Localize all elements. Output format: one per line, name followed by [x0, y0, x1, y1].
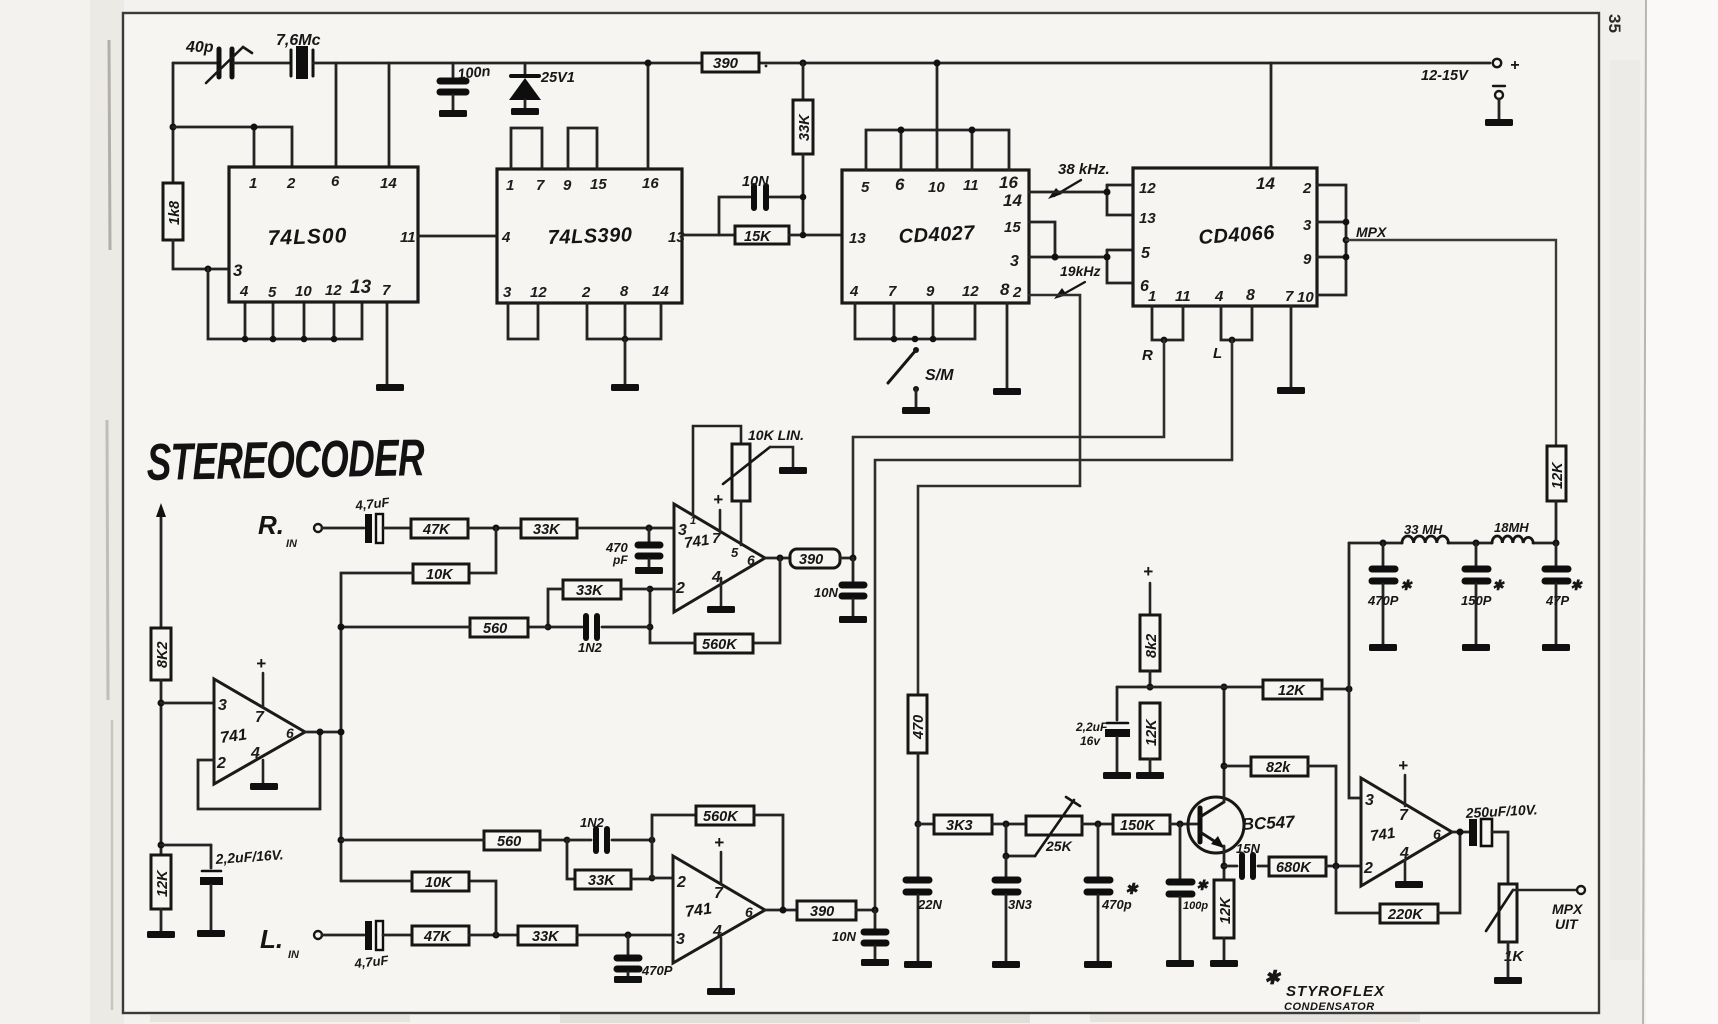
- svg-text:✱: ✱: [1400, 577, 1413, 593]
- ground 1K pot: [1494, 977, 1522, 984]
- svg-text:47P: 47P: [1545, 593, 1569, 608]
- resistor 1k8: [163, 183, 183, 240]
- wire left osc branch vertical: [172, 63, 175, 183]
- svg-text:12: 12: [962, 283, 979, 300]
- svg-text:IN: IN: [288, 949, 300, 961]
- resistor 220K (feedback): [1336, 832, 1460, 923]
- resistor 390 (L output): [797, 901, 856, 920]
- wire bus below 74LS00: [208, 269, 362, 339]
- svg-text:12K: 12K: [155, 869, 171, 897]
- capacitor 470P (L input filter): [617, 935, 673, 978]
- svg-text:7: 7: [888, 283, 897, 300]
- wire pin4 ground (output op-amp): [1404, 860, 1407, 881]
- svg-text:1N2: 1N2: [578, 640, 603, 655]
- wire 390 to L node: [856, 909, 875, 912]
- svg-text:8K2: 8K2: [155, 641, 171, 668]
- capacitor 47P (filter): [1545, 543, 1583, 644]
- ground S/M: [902, 407, 930, 414]
- svg-text:4: 4: [711, 569, 721, 586]
- switch S/M: [888, 336, 954, 407]
- resistor 390 (R output): [790, 549, 840, 568]
- svg-text:3: 3: [218, 697, 227, 714]
- IC U2 74LS390: [497, 169, 685, 303]
- svg-text:33 MH: 33 MH: [1404, 522, 1443, 537]
- svg-text:+: +: [256, 654, 266, 673]
- svg-text:pF: pF: [612, 553, 628, 567]
- wire op-amp pin2 from 33K feedback: [650, 588, 674, 591]
- wire CD4027 pin14 (38kHz) to CD4066 pins 12,13: [1029, 191, 1107, 194]
- svg-text:33K: 33K: [532, 929, 560, 945]
- ground CD4027 pin8: [993, 388, 1021, 395]
- wire output node: [1452, 831, 1469, 834]
- ground U5 pin4: [707, 606, 735, 613]
- resistor 12K (MPX input): [1547, 446, 1566, 543]
- svg-text:1: 1: [690, 515, 696, 527]
- capacitor 2,2uF/16V (bias): [1075, 687, 1130, 772]
- svg-text:MPX: MPX: [1356, 224, 1388, 240]
- wire 15K to CD4027 pin13: [789, 234, 842, 237]
- svg-text:35: 35: [1605, 14, 1624, 33]
- resistor 47K (R): [411, 519, 468, 538]
- svg-text:3: 3: [1010, 253, 1019, 270]
- svg-text:+: +: [1510, 57, 1519, 74]
- wire 1k8 to pin 3: [173, 240, 229, 269]
- svg-text:33K: 33K: [588, 873, 616, 889]
- potentiometer 1K: [1486, 884, 1576, 977]
- svg-text:7: 7: [1285, 288, 1294, 305]
- - supply terminal with ground: [1485, 86, 1513, 126]
- capacitor 470P (filter): [1367, 543, 1413, 644]
- wire CD4027 bottom bus pins 4,7,9,12: [855, 303, 975, 339]
- svg-text:11: 11: [963, 177, 979, 194]
- label 19kHz with arrow: [1054, 263, 1100, 299]
- svg-text:470P: 470P: [641, 963, 673, 978]
- ground 3N3: [992, 961, 1020, 968]
- svg-text:S/M: S/M: [925, 367, 954, 384]
- ground 74LS390 pin8: [611, 384, 639, 391]
- svg-text:390: 390: [713, 55, 739, 72]
- svg-text:12: 12: [1139, 180, 1156, 197]
- capacitor 10N (parallel with 15K): [719, 174, 803, 235]
- svg-text:2: 2: [216, 755, 226, 772]
- svg-text:6: 6: [895, 175, 905, 194]
- svg-text:5: 5: [731, 545, 739, 560]
- svg-text:14: 14: [1003, 191, 1022, 210]
- ground 12K: [147, 931, 175, 938]
- resistor 12K (emitter): [1214, 880, 1234, 960]
- capacitor 22N: [906, 824, 942, 961]
- svg-text:16v: 16v: [1080, 734, 1101, 748]
- capacitor 100n (decoupling): [439, 63, 491, 117]
- svg-text:7: 7: [382, 282, 391, 299]
- ground U8 pin4: [1395, 881, 1423, 888]
- svg-text:4: 4: [501, 229, 511, 246]
- wire CD4066 pins 4,8 link (L): [1221, 306, 1252, 340]
- svg-text:L: L: [1213, 345, 1222, 362]
- wire 74LS390 pins 1-7 link: [511, 128, 542, 169]
- wire CD4027 pin3 (19kHz) to CD4066 pins 5,6: [1029, 256, 1107, 259]
- wire filter line: [1349, 542, 1402, 545]
- svg-text:+: +: [1143, 562, 1153, 581]
- svg-text:560: 560: [497, 834, 521, 850]
- svg-text:L.: L.: [260, 924, 283, 954]
- wire offset pin1 loop to 10K LIN top: [693, 426, 741, 515]
- wire pin8 ground stub: [624, 339, 627, 384]
- svg-text:12K: 12K: [1278, 683, 1306, 699]
- svg-text:11: 11: [400, 229, 416, 246]
- resistor 33K (L feedback): [567, 840, 651, 889]
- op-amp U5 741 (R channel): [674, 504, 765, 612]
- svg-text:10: 10: [295, 283, 312, 300]
- svg-text:10N: 10N: [742, 174, 769, 190]
- ground 2,2uF bias: [1103, 772, 1131, 779]
- wire output to 390: [765, 557, 790, 560]
- svg-text:13: 13: [849, 230, 866, 247]
- wire CD4027 pin2 down (19kHz route): [918, 295, 1080, 695]
- svg-text:+: +: [714, 833, 724, 852]
- svg-text:470p: 470p: [1101, 897, 1132, 912]
- svg-text:6: 6: [1433, 826, 1441, 842]
- wire 390 to R node: [840, 557, 853, 560]
- resistor 33K (L series): [518, 926, 577, 945]
- svg-text:8: 8: [1000, 280, 1010, 299]
- resistor 15K: [735, 226, 789, 245]
- svg-text:1: 1: [1148, 288, 1156, 305]
- svg-text:74LS390: 74LS390: [547, 224, 632, 249]
- resistor 8k2 (bias): [1140, 615, 1160, 687]
- wire emitter down: [1223, 846, 1226, 880]
- svg-text:10: 10: [1297, 289, 1314, 306]
- wire pot to pin5: [740, 501, 743, 545]
- svg-text:33K: 33K: [797, 113, 813, 141]
- wire 25K wiper tie: [1006, 824, 1035, 856]
- svg-text:✱: ✱: [1492, 577, 1505, 593]
- capacitor 100p: [1169, 824, 1209, 960]
- wire L in to 4,7uF: [322, 934, 364, 937]
- wire CD4066 pin7 to ground: [1290, 306, 1293, 387]
- svg-text:390: 390: [810, 904, 834, 920]
- svg-text:6: 6: [745, 904, 753, 920]
- svg-text:CD4027: CD4027: [898, 222, 976, 248]
- svg-text:7: 7: [536, 177, 545, 194]
- svg-text:+: +: [1398, 756, 1408, 775]
- ground 10N R: [839, 616, 867, 623]
- IC U3 CD4027: [842, 170, 1029, 303]
- svg-text:470P: 470P: [1367, 593, 1399, 608]
- op-amp U8 741 (output): [1361, 778, 1452, 886]
- wire CD4066 right pins 2,3,9,10 link: [1317, 185, 1346, 295]
- wire 560 to L feedback node: [540, 839, 567, 842]
- wire 250uF to 1K pot: [1492, 832, 1508, 884]
- svg-text:8: 8: [620, 283, 629, 300]
- svg-text:6: 6: [286, 725, 294, 741]
- wire 74LS00 pin11 to 74LS390 pin4: [418, 235, 497, 238]
- svg-text:9: 9: [926, 283, 935, 300]
- svg-text:R.: R.: [258, 510, 284, 540]
- svg-text:1N2: 1N2: [580, 815, 605, 830]
- wire R in to 4,7uF: [322, 527, 364, 530]
- svg-text:7: 7: [714, 885, 724, 902]
- resistor 33K (from rail): [793, 60, 813, 239]
- ground 100p: [1166, 960, 1194, 967]
- svg-text:6: 6: [331, 173, 340, 190]
- svg-text:7: 7: [1399, 807, 1409, 824]
- capacitor 10N (L de-emphasis): [832, 910, 886, 959]
- svg-text:560: 560: [483, 621, 507, 637]
- svg-text:25K: 25K: [1045, 838, 1073, 854]
- ground 470pF: [635, 567, 663, 574]
- svg-text:12: 12: [530, 284, 547, 301]
- svg-text:IN: IN: [286, 538, 298, 550]
- capacitor 3N3: [995, 856, 1033, 961]
- svg-text:220K: 220K: [1387, 907, 1424, 923]
- svg-text:560K: 560K: [702, 637, 738, 653]
- wire sum output to matrix vertical: [305, 731, 341, 734]
- svg-text:82k: 82k: [1266, 760, 1291, 776]
- ground 12K emitter: [1210, 960, 1238, 967]
- svg-text:1: 1: [506, 177, 514, 194]
- svg-text:R: R: [1142, 347, 1153, 364]
- svg-text:8: 8: [1246, 287, 1255, 304]
- svg-text:12K: 12K: [1550, 461, 1566, 489]
- terminal MPX UIT: [1552, 886, 1585, 932]
- wire 8K2 to pin3 and 12K: [160, 680, 163, 855]
- capacitor 150P (filter): [1461, 543, 1505, 644]
- potentiometer 25K: [1026, 797, 1082, 856]
- page scan edge line: [1643, 0, 1646, 1024]
- svg-text:15K: 15K: [744, 229, 772, 245]
- svg-text:12-15V: 12-15V: [1421, 68, 1469, 84]
- ground 470p: [1084, 961, 1112, 968]
- svg-text:2,2uF: 2,2uF: [1075, 720, 1108, 734]
- svg-text:10: 10: [928, 179, 945, 196]
- svg-text:2: 2: [1302, 180, 1312, 197]
- svg-text:560K: 560K: [703, 809, 739, 825]
- svg-text:40p: 40p: [185, 39, 214, 56]
- svg-text:16: 16: [999, 173, 1018, 192]
- inductor 33MH: [1402, 522, 1448, 543]
- resistor 150K: [1113, 815, 1170, 834]
- resistor 560K (L feedback): [652, 806, 783, 910]
- svg-text:13: 13: [668, 229, 685, 246]
- ground 470P L: [614, 976, 642, 983]
- svg-text:CONDENSATOR: CONDENSATOR: [1284, 1001, 1375, 1013]
- wire 47K to 33K (L): [469, 934, 518, 937]
- wire 560K to pin2 node: [650, 589, 695, 643]
- capacitor 4,7uF (L input): [353, 921, 390, 971]
- wire 74LS390 pin13 to 15K: [682, 234, 735, 237]
- svg-text:2: 2: [676, 874, 686, 891]
- wire R route to R-channel output node: [853, 340, 1164, 558]
- svg-text:11: 11: [1175, 288, 1191, 305]
- svg-text:680K: 680K: [1276, 860, 1312, 876]
- svg-text:10N: 10N: [832, 929, 856, 944]
- ground 150P filter: [1462, 644, 1490, 651]
- wire collector up: [1223, 687, 1226, 802]
- svg-text:10K: 10K: [425, 875, 453, 891]
- svg-text:74LS00: 74LS00: [267, 224, 347, 250]
- svg-text:22N: 22N: [917, 897, 942, 912]
- svg-text:18MH: 18MH: [1494, 520, 1529, 535]
- wire 10K to sum node vertical: [341, 573, 413, 881]
- svg-text:47K: 47K: [423, 929, 452, 945]
- supply + to 8k2: [1143, 562, 1153, 615]
- wire 4,7uF to 47K (L): [383, 934, 412, 937]
- resistor 470 (19kHz injection): [908, 695, 927, 824]
- wire CD4066 pin14 to rail: [1270, 63, 1273, 168]
- svg-text:5: 5: [1141, 245, 1151, 262]
- wire 33K to op-amp pin3: [577, 527, 674, 530]
- svg-text:3: 3: [1365, 792, 1374, 809]
- crystal 7,6Mc: [276, 32, 321, 79]
- wire sum feedback loop pin2: [198, 732, 320, 809]
- wire pin10 stub: [303, 302, 306, 339]
- transistor Q1 BC547: [1188, 797, 1297, 853]
- wire 10K to sum vertical (L): [341, 880, 412, 883]
- svg-text:33K: 33K: [533, 522, 561, 538]
- wire crystal to pin 6: [335, 63, 338, 170]
- ground U7 pin4: [707, 988, 735, 995]
- svg-text:✱: ✱: [1125, 881, 1139, 898]
- svg-text:15N: 15N: [1236, 841, 1260, 856]
- wire CD4027 top bus pins 5,6,10,11,16: [866, 130, 1009, 170]
- wire L route to L-channel output node: [875, 340, 1232, 909]
- wire 10K tap (R node to sum bus): [469, 528, 496, 573]
- wire 3K3 to 25K: [992, 823, 1026, 826]
- svg-text:2: 2: [581, 284, 591, 301]
- potentiometer 10K LIN: [723, 427, 804, 501]
- wire 4,7uF to 47K: [383, 527, 411, 530]
- wire bias node: [1117, 686, 1263, 689]
- svg-text:10K: 10K: [426, 567, 454, 583]
- ground 470P filter: [1369, 644, 1397, 651]
- svg-text:3: 3: [1303, 217, 1312, 234]
- capacitor 4,7uF (R input): [354, 494, 391, 543]
- ground U6 pin4: [250, 783, 278, 790]
- svg-text:3N3: 3N3: [1008, 897, 1033, 912]
- resistor 680K: [1269, 857, 1361, 876]
- svg-text:✱: ✱: [1196, 877, 1209, 893]
- svg-text:13: 13: [1139, 210, 1156, 227]
- svg-text:4: 4: [849, 283, 859, 300]
- svg-text:BC547: BC547: [1241, 812, 1296, 834]
- svg-text:150K: 150K: [1120, 818, 1156, 834]
- ground 10N L: [861, 959, 889, 966]
- capacitor 15N: [1224, 841, 1269, 877]
- svg-text:4: 4: [250, 745, 260, 762]
- wire to sum op-amp pin3: [161, 702, 214, 705]
- wire pin5 stub: [272, 302, 275, 339]
- wire 40p to crystal: [234, 62, 291, 65]
- svg-text:15: 15: [1004, 219, 1021, 236]
- wire 74LS390 pins 3-12 link: [508, 303, 538, 339]
- supply + to pin7 (output op-amp): [1398, 756, 1408, 806]
- resistor 560 (R): [470, 618, 528, 637]
- capacitor 470p (pilot filter): [1087, 824, 1139, 961]
- svg-text:38 kHz.: 38 kHz.: [1058, 161, 1110, 178]
- wire top supply rail left segment: [173, 62, 217, 65]
- ground 22N: [904, 961, 932, 968]
- svg-text:5: 5: [268, 284, 277, 301]
- wire CD4027 pin8 to ground: [1006, 303, 1009, 388]
- supply + to sum pin7: [256, 654, 266, 707]
- svg-text:2: 2: [1363, 860, 1373, 877]
- capacitor 250uF/10V: [1464, 801, 1538, 846]
- ground 10K LIN wiper: [779, 467, 807, 474]
- svg-text:4: 4: [1214, 288, 1224, 305]
- svg-text:2: 2: [1012, 284, 1022, 301]
- wire to 3K3: [918, 823, 934, 826]
- resistor 3K3: [934, 815, 992, 834]
- wire 47K to 33K: [468, 527, 521, 530]
- svg-text:10N: 10N: [814, 585, 838, 600]
- + supply terminal 12-15V: [1421, 57, 1519, 84]
- supply + to pin7 (L): [714, 833, 724, 884]
- svg-text:15: 15: [590, 176, 607, 193]
- ground 2,2uF: [197, 930, 225, 937]
- wire MPX output to 12K: [1346, 240, 1556, 446]
- svg-text:+: +: [713, 490, 723, 509]
- wire top supply rail to + terminal: [313, 62, 702, 65]
- wire sum pin4 ground: [262, 760, 265, 783]
- op-amp U6 741 (sum): [214, 679, 305, 784]
- svg-text:14: 14: [652, 283, 669, 300]
- resistor 560 (L): [484, 831, 540, 850]
- capacitor 2,2uF/16V: [161, 845, 284, 930]
- svg-text:3K3: 3K3: [946, 818, 973, 834]
- note STYROFLEX CONDENSATOR: [1264, 968, 1385, 1013]
- svg-text:1k8: 1k8: [167, 200, 183, 225]
- resistor 33K (R feedback): [545, 580, 650, 630]
- svg-text:9: 9: [1303, 251, 1312, 268]
- wire sum node to 560 (L): [341, 839, 484, 842]
- svg-text:12: 12: [325, 282, 342, 299]
- wire CD4066 pins 1,11 link (R): [1152, 306, 1183, 340]
- wire CD4027 pin15 to pin3 link: [1029, 222, 1055, 257]
- svg-text:5: 5: [861, 179, 870, 196]
- wire 560 to feedback node: [528, 626, 548, 629]
- wire 10K tap (L node): [469, 881, 496, 935]
- supply arrow to 8K2: [156, 503, 166, 628]
- wire filter node down to op-amp pin3: [1349, 543, 1361, 798]
- svg-text:MPX: MPX: [1552, 901, 1584, 917]
- svg-text:8k2: 8k2: [1144, 634, 1160, 658]
- IC U1 74LS00: [229, 167, 418, 302]
- resistor 10K (R matrix): [413, 564, 469, 583]
- resistor 12K (bias): [151, 855, 171, 931]
- svg-text:16: 16: [642, 175, 659, 192]
- capacitor 1N2 (R feedback): [548, 616, 650, 655]
- svg-text:✱: ✱: [1264, 968, 1282, 989]
- svg-text:4: 4: [239, 283, 249, 300]
- inductor 18MH: [1492, 520, 1533, 543]
- svg-text:33K: 33K: [576, 583, 604, 599]
- svg-text:9: 9: [563, 177, 572, 194]
- svg-text:7,6Mc: 7,6Mc: [276, 32, 321, 49]
- svg-text:19kHz: 19kHz: [1060, 263, 1100, 279]
- svg-text:2: 2: [286, 175, 296, 192]
- resistor 8K2: [151, 628, 171, 680]
- capacitor 1N2 (L feedback): [567, 815, 652, 851]
- resistor 12K (horizontal): [1263, 680, 1322, 699]
- wire pin4 stub: [244, 302, 247, 339]
- svg-text:UIT: UIT: [1555, 916, 1579, 932]
- svg-text:741: 741: [683, 532, 710, 552]
- svg-text:14: 14: [1256, 174, 1275, 193]
- svg-text:14: 14: [380, 175, 397, 192]
- wire pin4 to ground: [720, 578, 723, 606]
- ground 47P filter: [1542, 644, 1570, 651]
